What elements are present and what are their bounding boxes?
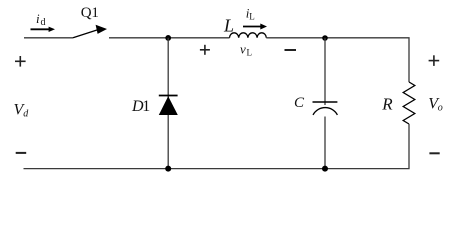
label - (V_o minus) bbox=[429, 152, 439, 154]
switch Q1 arrowhead bbox=[96, 25, 107, 34]
diode D1 vertical wire bbox=[167, 38, 169, 169]
svg-text:L: L bbox=[249, 12, 255, 22]
label - (V_d minus) bbox=[16, 152, 27, 154]
svg-text:1: 1 bbox=[142, 98, 150, 115]
label - (v_L minus) bbox=[285, 49, 297, 51]
current arrow i_L bbox=[243, 24, 267, 30]
current arrow i_d bbox=[31, 27, 56, 32]
capacitor C top lead bbox=[324, 38, 326, 105]
svg-text:L: L bbox=[223, 15, 234, 35]
capacitor C top plate bbox=[313, 101, 338, 103]
label D1 bbox=[131, 98, 150, 115]
label v_L bbox=[240, 42, 252, 58]
label V_d bbox=[14, 102, 30, 120]
svg-text:R: R bbox=[381, 94, 393, 113]
label + (v_L plus) bbox=[200, 45, 210, 55]
wire top middle bbox=[109, 37, 230, 39]
svg-text:L: L bbox=[247, 47, 253, 57]
svg-text:C: C bbox=[294, 95, 305, 111]
svg-text:o: o bbox=[438, 103, 443, 114]
switch Q1 blade bbox=[73, 30, 99, 38]
svg-text:i: i bbox=[36, 11, 40, 26]
wire right vertical bottom and bottom rail bbox=[24, 124, 410, 169]
current label i_d bbox=[36, 11, 46, 28]
resistor R zigzag bbox=[403, 82, 415, 124]
capacitor C bottom lead bbox=[324, 117, 326, 169]
capacitor C curved plate bbox=[313, 108, 337, 115]
diode D1 triangle bbox=[159, 96, 178, 115]
inductor L bbox=[230, 33, 267, 38]
node junction dot top (capacitor) bbox=[322, 35, 328, 41]
label + (V_d plus) bbox=[15, 56, 26, 67]
wire top right and right vertical top bbox=[266, 38, 409, 82]
wire top-left stub bbox=[24, 37, 73, 39]
label + (V_o plus) bbox=[429, 55, 440, 66]
node junction dot top (diode) bbox=[165, 35, 171, 41]
node junction dot bottom (diode) bbox=[165, 166, 171, 172]
label V_o bbox=[428, 95, 443, 113]
svg-text:Q1: Q1 bbox=[81, 5, 99, 21]
diode D1 cathode bar bbox=[159, 95, 178, 97]
svg-text:v: v bbox=[240, 42, 246, 57]
node junction dot bottom (capacitor) bbox=[322, 166, 328, 172]
svg-text:d: d bbox=[41, 17, 46, 28]
current label i_L bbox=[246, 5, 255, 21]
